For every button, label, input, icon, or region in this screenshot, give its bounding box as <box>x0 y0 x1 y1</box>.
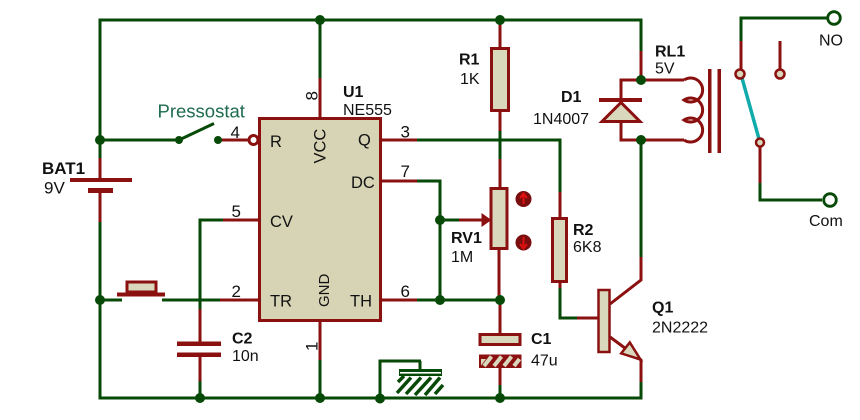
wire pin4 stub <box>220 139 249 142</box>
wire pin3 Q stub red <box>381 139 417 142</box>
wire Q1 collector red <box>610 257 641 304</box>
svg-text:C1: C1 <box>531 331 552 348</box>
potentiometer RV1 knob up <box>516 191 532 207</box>
svg-text:8: 8 <box>303 91 322 100</box>
junction C1 gnd <box>495 393 505 403</box>
junction switch pivot <box>175 136 183 144</box>
wire pin7 DC green <box>417 180 442 183</box>
svg-text:2: 2 <box>232 282 241 301</box>
relay contact com <box>756 139 764 147</box>
svg-text:9V: 9V <box>44 179 65 198</box>
wire C2 top pin <box>199 309 202 342</box>
wire left rail lower <box>99 222 102 400</box>
relay RL1 core <box>708 69 721 153</box>
svg-text:2N2222: 2N2222 <box>652 320 708 337</box>
svg-text:TH: TH <box>350 293 372 311</box>
junction button node <box>95 295 105 305</box>
svg-text:R1: R1 <box>459 52 480 69</box>
wire pin1 GND stub red <box>319 321 322 360</box>
junction ground symbol tap <box>375 394 385 404</box>
wire D1 top connector <box>621 80 637 99</box>
svg-text:1K: 1K <box>460 71 480 88</box>
junction top rail R1 <box>495 15 505 25</box>
wire C1 to rail green <box>499 385 502 398</box>
diode D1 <box>599 98 642 122</box>
push button <box>117 282 165 297</box>
svg-text:47u: 47u <box>531 353 558 370</box>
svg-text:Pressostat: Pressostat <box>158 101 245 122</box>
wire com green <box>760 183 822 200</box>
wire top rail VCC <box>99 19 643 22</box>
terminal NO <box>828 12 841 25</box>
wire C2 bottom pin <box>199 356 202 381</box>
wire NO horizontal <box>740 17 828 20</box>
svg-text:BAT1: BAT1 <box>42 159 85 178</box>
svg-text:1: 1 <box>303 342 322 351</box>
junction battery-switch node <box>95 135 105 145</box>
wire R2 to base corner <box>560 288 577 318</box>
wire TR right of button <box>162 299 220 302</box>
wire com contact lead red <box>759 147 762 183</box>
svg-text:7: 7 <box>401 162 410 181</box>
wire relay feed red <box>640 51 643 77</box>
wire pin6 TH stub red <box>381 299 417 302</box>
relay contact pole <box>736 70 745 79</box>
wire C1 top pin <box>499 302 502 334</box>
junction wiper tap <box>435 215 445 225</box>
svg-text:1M: 1M <box>451 249 473 266</box>
svg-text:R: R <box>270 133 282 151</box>
svg-text:R2: R2 <box>573 222 594 239</box>
battery BAT1 <box>70 178 132 193</box>
wire Q1 base stub red <box>577 317 599 320</box>
resistor R2 <box>553 219 567 282</box>
svg-text:6K8: 6K8 <box>573 239 602 256</box>
junction TH-DC node <box>435 295 445 305</box>
wire pressostat feed <box>100 139 177 142</box>
capacitor C2 <box>177 342 221 358</box>
wire R1 bottom pin <box>499 110 502 131</box>
wire RV1 bottom pin <box>498 248 501 297</box>
svg-text:Com: Com <box>809 213 843 230</box>
svg-text:DC: DC <box>351 174 375 192</box>
potentiometer RV1 wiper arrow <box>442 213 492 227</box>
wire pin3 Q green <box>417 139 562 142</box>
svg-text:D1: D1 <box>561 89 582 106</box>
wire bottom rail GND <box>99 397 643 400</box>
transistor Q1 <box>599 290 641 360</box>
wire RV1 top pin <box>499 159 502 189</box>
wire pole contact lead red <box>740 41 743 69</box>
svg-text:1N4007: 1N4007 <box>533 111 589 128</box>
wire coil bottom lead <box>645 139 684 142</box>
svg-text:Q: Q <box>358 132 371 150</box>
wire relay blade cyan <box>742 78 759 139</box>
svg-text:RL1: RL1 <box>655 44 685 61</box>
wire pin5 CV stub red <box>223 219 260 222</box>
wire TR left of button <box>100 299 122 302</box>
wire pin8 stub red <box>319 78 322 119</box>
svg-text:3: 3 <box>401 123 410 142</box>
junction pin1 gnd <box>315 393 325 403</box>
wire R2 bottom pin <box>559 281 562 288</box>
potentiometer RV1 knob down <box>516 235 532 251</box>
svg-text:RV1: RV1 <box>451 230 482 247</box>
svg-text:5V: 5V <box>655 61 675 78</box>
resistor R1 <box>492 49 509 111</box>
svg-text:C2: C2 <box>232 331 253 348</box>
wire C1 bottom pin <box>499 367 502 386</box>
ground <box>379 360 444 398</box>
wire C2 to gnd rail <box>199 381 202 398</box>
junction relay bottom / collector <box>636 135 646 145</box>
switch pressostat bubble (pin 4 reset) <box>249 136 258 145</box>
svg-text:4: 4 <box>231 123 240 142</box>
capacitor C1 top plate <box>480 335 520 345</box>
wire R1-RV1 link green <box>499 131 502 159</box>
relay contact NO fixed <box>776 70 785 79</box>
wire Q to R2 vertical <box>559 140 562 192</box>
capacitor C1 bottom plate hatched <box>479 355 522 369</box>
wire DC-TH vertical <box>439 181 442 300</box>
relay RL1 coil <box>684 78 703 142</box>
junction switch throw <box>214 136 222 144</box>
junction TH-C1 node <box>495 295 505 305</box>
wire pin7 DC stub red <box>381 180 417 183</box>
svg-text:U1: U1 <box>343 84 364 101</box>
potentiometer RV1 body <box>491 189 507 249</box>
svg-text:VCC: VCC <box>312 129 330 164</box>
svg-text:TR: TR <box>270 293 292 311</box>
wire NO drop green <box>740 18 743 41</box>
svg-text:GND: GND <box>316 274 333 308</box>
wire CV branch down to C2 <box>199 219 202 310</box>
wire pin5 CV green <box>199 219 224 222</box>
wire pin8 VCC drop green <box>319 20 322 78</box>
wire left rail upper <box>99 19 102 160</box>
svg-text:6: 6 <box>401 282 410 301</box>
wire collector green <box>640 144 643 257</box>
terminal Com <box>824 194 837 207</box>
wire pin6 TH green <box>417 299 500 302</box>
op-amp U1 NE555 body <box>260 119 381 321</box>
wire emitter to rail green <box>640 382 643 400</box>
svg-text:NO: NO <box>819 33 843 50</box>
wire coil top lead <box>645 79 684 82</box>
svg-text:NE555: NE555 <box>343 102 392 119</box>
wire R1 top pin <box>499 22 502 49</box>
wire switch lever <box>179 124 214 141</box>
wire top rail drop to relay green <box>640 19 643 52</box>
svg-text:5: 5 <box>232 202 241 221</box>
wire battery bottom pin <box>99 191 102 223</box>
wire pin2 TR stub red <box>220 299 260 302</box>
wire Q1 emitter <box>610 337 641 382</box>
wire pin1 to rail green <box>319 360 322 398</box>
svg-text:Q1: Q1 <box>652 300 673 317</box>
svg-text:CV: CV <box>270 213 293 231</box>
junction relay top / D1 cathode <box>636 75 646 85</box>
junction top rail pin8 <box>315 15 325 25</box>
wire NO fixed contact stub <box>779 41 782 69</box>
wire R2 top pin <box>559 192 562 220</box>
wire D1 bottom connector <box>621 121 637 140</box>
wire battery top pin <box>99 158 102 179</box>
junction C2 gnd <box>195 393 205 403</box>
svg-text:10n: 10n <box>232 348 259 365</box>
